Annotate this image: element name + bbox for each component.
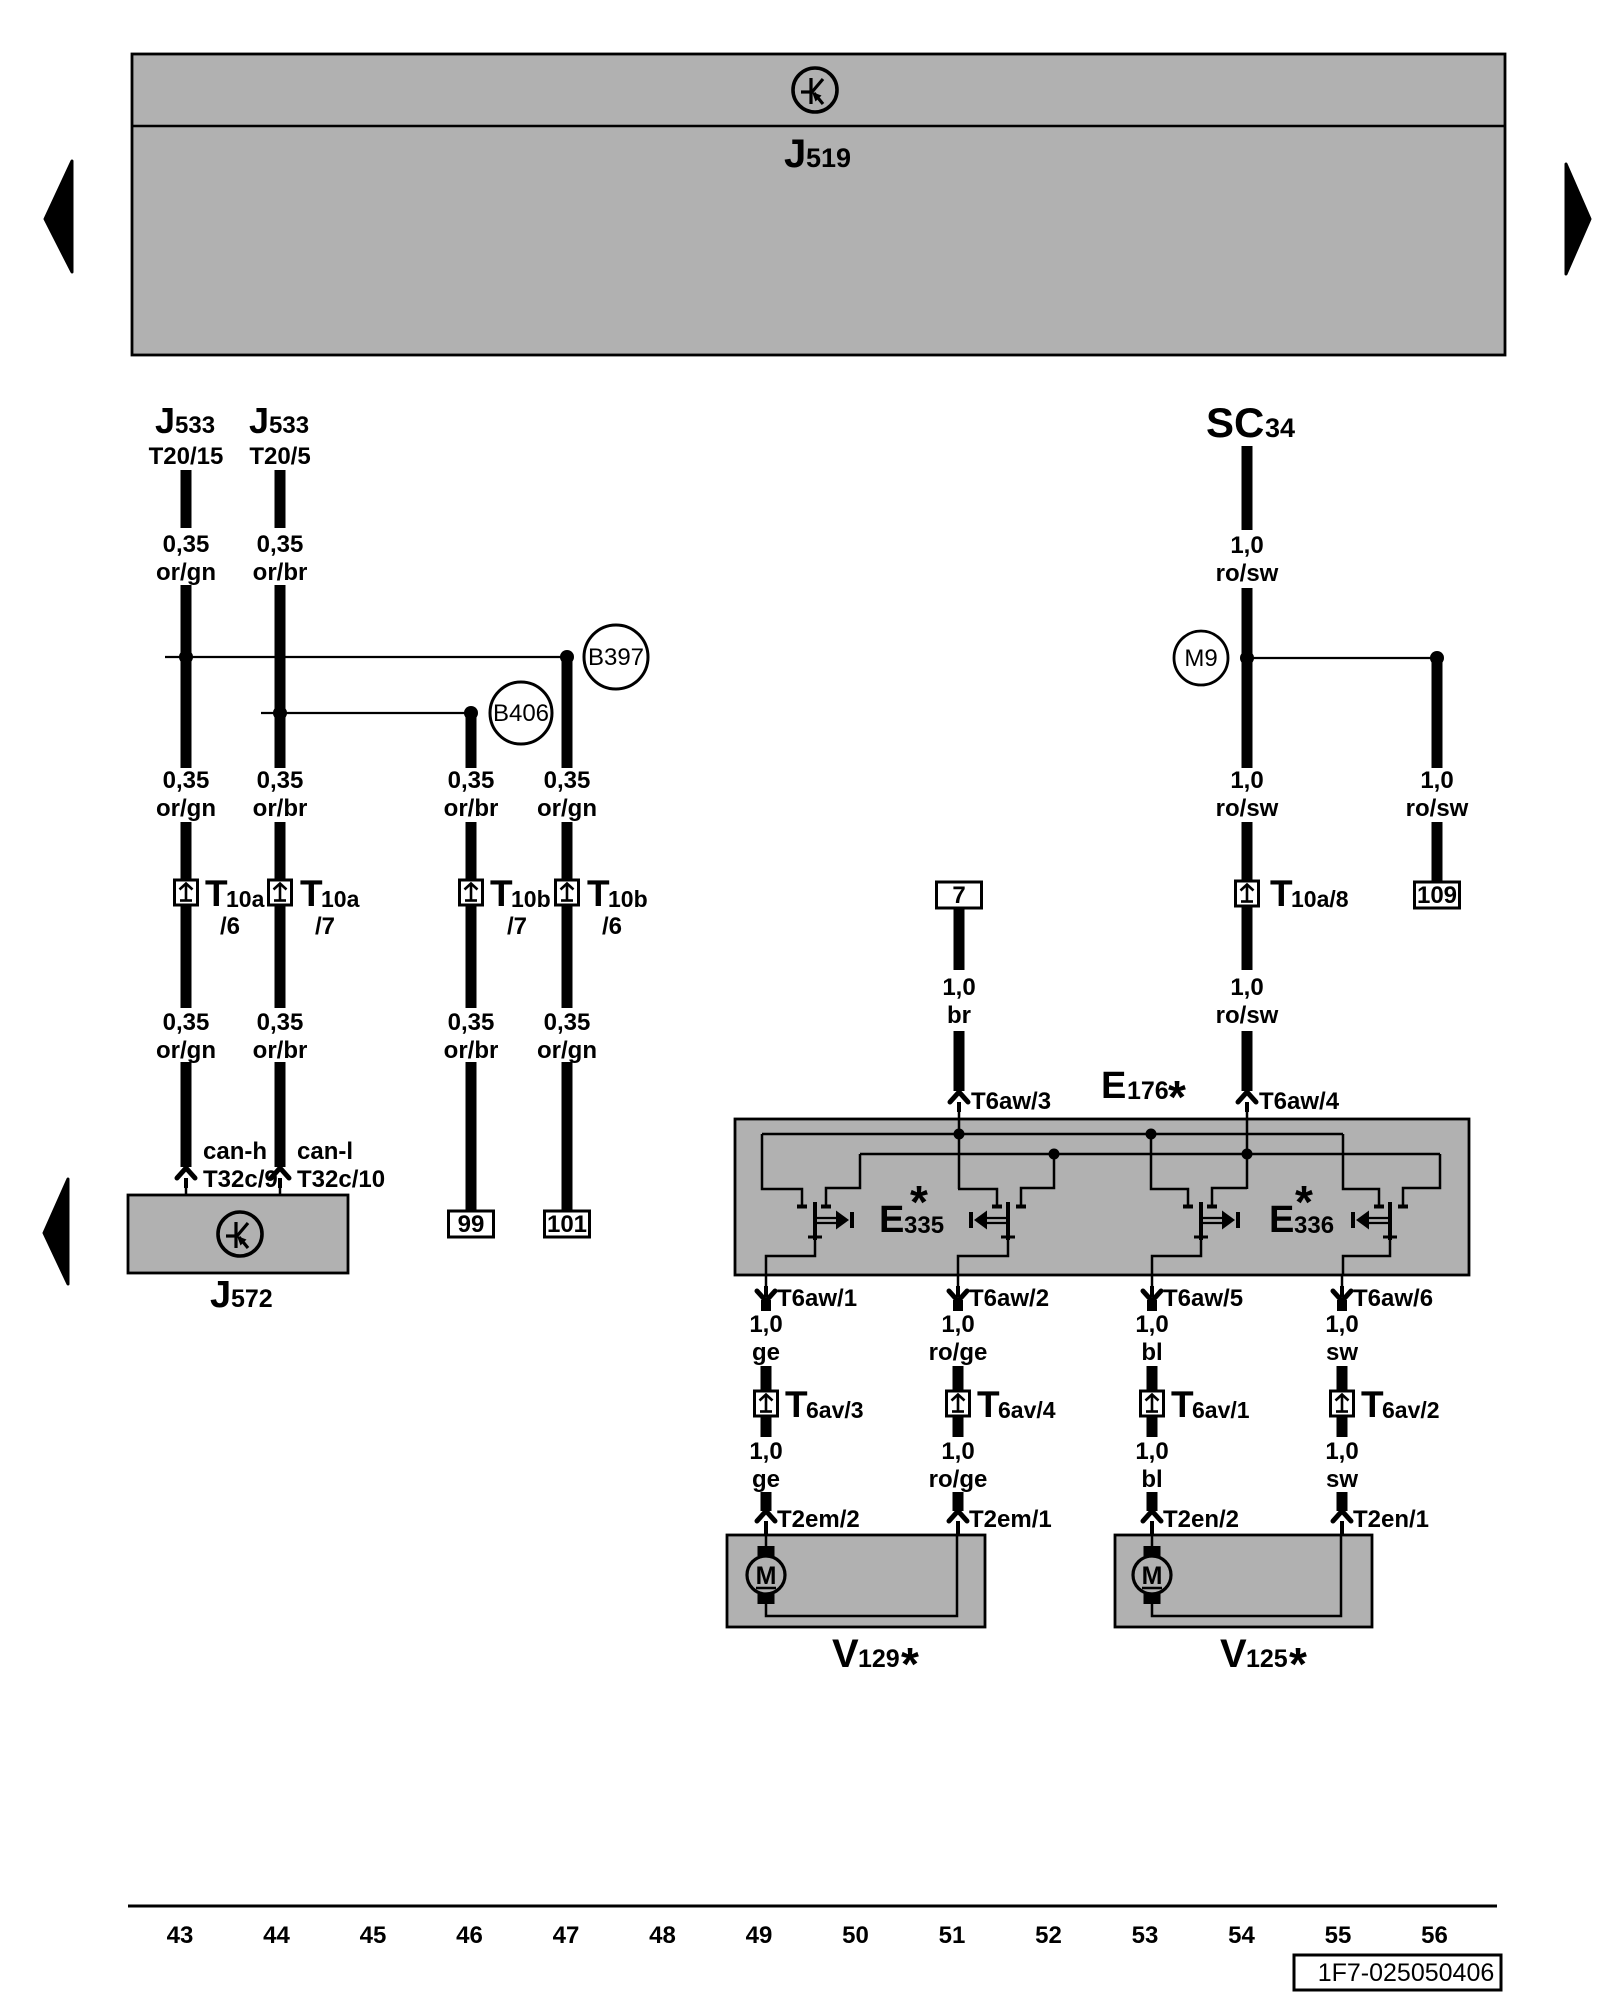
svg-text:T: T: [300, 873, 323, 914]
svg-text:T6aw/1: T6aw/1: [777, 1285, 857, 1312]
svg-text:10a: 10a: [226, 886, 265, 912]
svg-text:*: *: [1168, 1071, 1186, 1123]
svg-text:52: 52: [1035, 1922, 1062, 1949]
svg-text:or/br: or/br: [253, 795, 308, 822]
svg-text:or/br: or/br: [253, 559, 308, 586]
svg-text:T6aw/6: T6aw/6: [1353, 1285, 1433, 1312]
svg-text:533: 533: [175, 412, 215, 439]
svg-text:or/gn: or/gn: [537, 795, 597, 822]
svg-text:J: J: [784, 132, 806, 176]
svg-text:34: 34: [1265, 413, 1295, 443]
svg-text:can-h: can-h: [203, 1138, 267, 1165]
svg-text:0,35: 0,35: [544, 1009, 591, 1036]
svg-text:bl: bl: [1141, 1466, 1162, 1493]
svg-text:T2em/2: T2em/2: [777, 1506, 860, 1533]
svg-text:J: J: [155, 400, 175, 441]
svg-text:E: E: [1269, 1199, 1294, 1241]
svg-text:533: 533: [269, 412, 309, 439]
svg-text:50: 50: [842, 1922, 869, 1949]
svg-text:101: 101: [547, 1211, 587, 1238]
svg-text:ro/ge: ro/ge: [929, 1466, 988, 1493]
svg-text:T6aw/3: T6aw/3: [971, 1088, 1051, 1115]
svg-text:0,35: 0,35: [163, 1009, 210, 1036]
svg-text:E: E: [1101, 1065, 1126, 1107]
svg-text:6av/1: 6av/1: [1192, 1397, 1250, 1423]
svg-text:0,35: 0,35: [163, 531, 210, 558]
svg-text:1,0: 1,0: [1325, 1311, 1358, 1338]
svg-text:T: T: [1171, 1384, 1194, 1425]
svg-text:1,0: 1,0: [749, 1438, 782, 1465]
svg-text:J: J: [249, 400, 269, 441]
svg-text:T: T: [1361, 1384, 1384, 1425]
svg-text:T6aw/5: T6aw/5: [1163, 1285, 1243, 1312]
svg-text:*: *: [1295, 1176, 1313, 1228]
svg-text:53: 53: [1132, 1922, 1159, 1949]
svg-text:/7: /7: [507, 913, 527, 940]
svg-text:*: *: [910, 1176, 928, 1228]
svg-text:or/gn: or/gn: [537, 1037, 597, 1064]
svg-text:56: 56: [1421, 1922, 1448, 1949]
svg-text:T: T: [490, 873, 513, 914]
svg-text:ge: ge: [752, 1466, 780, 1493]
svg-text:10a/8: 10a/8: [1291, 886, 1349, 912]
svg-text:1,0: 1,0: [941, 1311, 974, 1338]
svg-text:47: 47: [553, 1922, 580, 1949]
svg-text:br: br: [947, 1002, 971, 1029]
svg-text:ro/ge: ro/ge: [929, 1339, 988, 1366]
svg-text:/6: /6: [602, 913, 622, 940]
svg-text:0,35: 0,35: [448, 767, 495, 794]
svg-text:54: 54: [1228, 1922, 1255, 1949]
svg-text:T: T: [205, 873, 228, 914]
svg-text:T: T: [1270, 873, 1293, 914]
svg-text:10a: 10a: [321, 886, 360, 912]
svg-text:/7: /7: [315, 913, 335, 940]
svg-text:44: 44: [263, 1922, 290, 1949]
svg-text:6av/3: 6av/3: [806, 1397, 864, 1423]
svg-text:ro/sw: ro/sw: [1216, 795, 1279, 822]
svg-text:1,0: 1,0: [1325, 1438, 1358, 1465]
svg-text:1,0: 1,0: [1420, 767, 1453, 794]
svg-text:T2em/1: T2em/1: [969, 1506, 1052, 1533]
svg-text:T32c/10: T32c/10: [297, 1166, 385, 1193]
svg-text:43: 43: [167, 1922, 194, 1949]
svg-text:48: 48: [649, 1922, 676, 1949]
svg-text:6av/4: 6av/4: [998, 1397, 1056, 1423]
svg-text:0,35: 0,35: [163, 767, 210, 794]
svg-text:ro/sw: ro/sw: [1216, 1002, 1279, 1029]
svg-text:T20/15: T20/15: [149, 443, 224, 470]
svg-text:1,0: 1,0: [1135, 1311, 1168, 1338]
svg-text:T20/5: T20/5: [249, 443, 310, 470]
svg-text:10b: 10b: [511, 886, 551, 912]
svg-text:T: T: [587, 873, 610, 914]
svg-text:1,0: 1,0: [942, 974, 975, 1001]
svg-text:or/gn: or/gn: [156, 795, 216, 822]
svg-text:or/br: or/br: [444, 1037, 499, 1064]
svg-text:7: 7: [952, 882, 965, 909]
svg-text:46: 46: [456, 1922, 483, 1949]
svg-text:E: E: [879, 1199, 904, 1241]
svg-text:bl: bl: [1141, 1339, 1162, 1366]
svg-text:0,35: 0,35: [257, 767, 304, 794]
svg-text:or/br: or/br: [253, 1037, 308, 1064]
svg-text:51: 51: [939, 1922, 966, 1949]
svg-text:sw: sw: [1326, 1466, 1358, 1493]
svg-text:0,35: 0,35: [257, 1009, 304, 1036]
svg-text:519: 519: [806, 143, 851, 173]
svg-text:55: 55: [1325, 1922, 1352, 1949]
svg-text:ro/sw: ro/sw: [1406, 795, 1469, 822]
svg-text:*: *: [901, 1638, 919, 1690]
svg-text:or/gn: or/gn: [156, 1037, 216, 1064]
svg-text:1,0: 1,0: [749, 1311, 782, 1338]
svg-text:J: J: [210, 1274, 231, 1316]
svg-text:0,35: 0,35: [448, 1009, 495, 1036]
svg-text:T32c/9: T32c/9: [203, 1166, 278, 1193]
svg-text:0,35: 0,35: [257, 531, 304, 558]
svg-text:*: *: [1289, 1638, 1307, 1690]
svg-text:T6aw/4: T6aw/4: [1259, 1088, 1340, 1115]
svg-text:T: T: [785, 1384, 808, 1425]
svg-text:129: 129: [858, 1645, 900, 1673]
svg-text:can-l: can-l: [297, 1138, 353, 1165]
svg-text:T6aw/2: T6aw/2: [969, 1285, 1049, 1312]
svg-text:49: 49: [746, 1922, 773, 1949]
svg-text:176: 176: [1127, 1077, 1169, 1105]
svg-text:1,0: 1,0: [1230, 974, 1263, 1001]
svg-text:sw: sw: [1326, 1339, 1358, 1366]
svg-text:or/gn: or/gn: [156, 559, 216, 586]
svg-text:10b: 10b: [608, 886, 648, 912]
svg-text:1F7-025050406: 1F7-025050406: [1318, 1959, 1495, 1987]
svg-text:/6: /6: [220, 913, 240, 940]
svg-text:V: V: [832, 1632, 859, 1676]
svg-text:B397: B397: [588, 644, 644, 671]
svg-text:0,35: 0,35: [544, 767, 591, 794]
svg-text:T: T: [977, 1384, 1000, 1425]
svg-text:125: 125: [1246, 1645, 1288, 1673]
svg-text:B406: B406: [493, 700, 549, 727]
svg-text:6av/2: 6av/2: [1382, 1397, 1440, 1423]
svg-text:SC: SC: [1206, 399, 1264, 446]
svg-text:M9: M9: [1184, 645, 1217, 672]
svg-text:V: V: [1220, 1632, 1247, 1676]
svg-text:572: 572: [231, 1285, 273, 1313]
svg-text:99: 99: [458, 1211, 485, 1238]
svg-text:1,0: 1,0: [1230, 767, 1263, 794]
svg-text:ge: ge: [752, 1339, 780, 1366]
svg-text:1,0: 1,0: [1135, 1438, 1168, 1465]
svg-text:T2en/2: T2en/2: [1163, 1506, 1239, 1533]
svg-text:1,0: 1,0: [941, 1438, 974, 1465]
svg-text:T2en/1: T2en/1: [1353, 1506, 1429, 1533]
svg-text:ro/sw: ro/sw: [1216, 560, 1279, 587]
svg-text:45: 45: [360, 1922, 387, 1949]
svg-text:or/br: or/br: [444, 795, 499, 822]
svg-text:1,0: 1,0: [1230, 532, 1263, 559]
svg-text:109: 109: [1417, 882, 1457, 909]
